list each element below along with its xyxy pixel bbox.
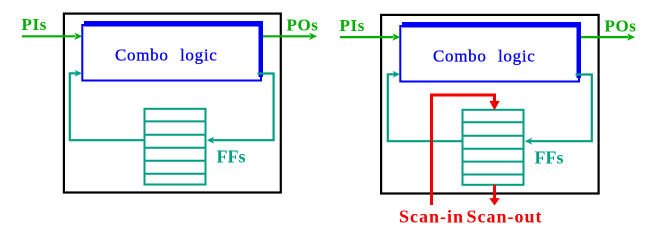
svg-text:POs: POs bbox=[605, 17, 637, 36]
flip-flop register block FFs (left) bbox=[145, 109, 206, 185]
svg-text:Combo: Combo bbox=[115, 46, 169, 65]
svg-text:Combo: Combo bbox=[433, 47, 487, 66]
primary outputs arrow (right) bbox=[581, 36, 629, 38]
svg-text:FFs: FFs bbox=[535, 148, 564, 168]
chip boundary box (left) bbox=[64, 14, 281, 193]
combo logic block U2 thick right edge (right) bbox=[577, 22, 582, 78]
flip-flop register block FFs (right) bbox=[463, 110, 524, 185]
combo logic block U2 thick top edge (right) bbox=[402, 22, 581, 28]
scan-in wire (red) bbox=[432, 95, 495, 205]
feedback wire FFs output to combo input (left) bbox=[70, 73, 144, 140]
feedback wire combo output to FFs input (left) bbox=[213, 74, 274, 141]
primary inputs arrow (right) bbox=[340, 36, 394, 38]
svg-text:Scan-out: Scan-out bbox=[467, 207, 543, 227]
feedback wire FFs output to combo input (right) bbox=[388, 74, 462, 141]
svg-text:Scan-in: Scan-in bbox=[399, 207, 464, 227]
primary inputs arrow (left) bbox=[22, 35, 76, 37]
primary outputs arrow (left) bbox=[263, 35, 311, 37]
svg-text:logic: logic bbox=[498, 47, 536, 66]
svg-text:PIs: PIs bbox=[340, 16, 365, 35]
scan-out wire (red) bbox=[493, 185, 496, 199]
FF register internal lines (left) bbox=[144, 121, 207, 173]
chip boundary box (right) bbox=[381, 15, 598, 194]
svg-text:PIs: PIs bbox=[22, 15, 47, 34]
combo logic block U1 thick top edge (left) bbox=[84, 21, 263, 27]
combo logic block U2 (right) bbox=[400, 26, 579, 82]
FF register internal lines (right) bbox=[462, 122, 525, 174]
feedback wire combo output to FFs input (right) bbox=[531, 75, 592, 142]
combo logic block U1 thick right edge (left) bbox=[259, 21, 264, 77]
svg-text:POs: POs bbox=[287, 16, 319, 35]
combo logic block U1 (left) bbox=[82, 25, 261, 81]
svg-text:logic: logic bbox=[180, 46, 218, 65]
svg-text:FFs: FFs bbox=[217, 147, 246, 167]
